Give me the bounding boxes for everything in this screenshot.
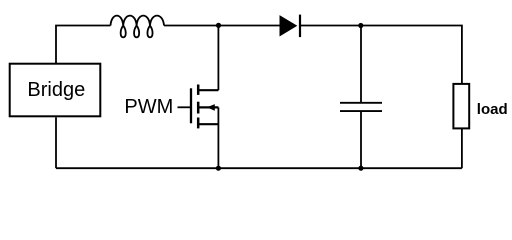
transistor Q1 channel segment source [197, 118, 200, 129]
wire: load bottom to rail corner [461, 128, 463, 168]
node B junction dot [358, 23, 363, 28]
wire: bridge bottom to rail [55, 117, 57, 168]
wire: node B to load top corner [361, 26, 462, 84]
transistor Q1 body arrow [207, 104, 215, 111]
node D junction dot (capacitor / rail) [358, 166, 363, 171]
node A junction dot [216, 23, 221, 28]
wire: drain up to node A [217, 26, 219, 91]
wire: capacitor to bottom rail [360, 111, 362, 168]
wire: node B down to capacitor [360, 26, 362, 103]
svg-text:Bridge: Bridge [27, 79, 85, 101]
wire: bridge top to inductor (corner at 56,25.5) [56, 26, 111, 64]
transistor Q1 body stub [198, 106, 218, 108]
diode D1 cathode bar [299, 15, 301, 37]
transistor Q1 channel segment body [197, 102, 200, 114]
wire: node A to diode anode [219, 25, 280, 27]
wire: diode cathode to node B [301, 25, 361, 27]
capacitor C1 bottom plate [340, 110, 382, 112]
wire: source down to bottom rail [217, 107, 219, 168]
transistor Q1 drain stub [198, 89, 218, 91]
transistor Q1 gate bar [190, 88, 192, 123]
transistor Q1 source stub [198, 123, 218, 125]
node C junction dot (source / rail) [216, 166, 221, 171]
transistor Q1 channel segment drain [197, 85, 200, 95]
diode D1 triangle [280, 15, 298, 36]
capacitor C1 top plate [340, 102, 382, 104]
wire: inductor to node A [164, 25, 219, 27]
wire: bottom rail [56, 167, 462, 169]
svg-text:PWM: PWM [124, 96, 173, 118]
inductor L1 [111, 16, 165, 38]
wire: gate lead [178, 106, 191, 108]
bridge rectifier box U1 [10, 64, 101, 117]
load resistor box [453, 84, 469, 128]
svg-text:load: load [477, 101, 508, 118]
